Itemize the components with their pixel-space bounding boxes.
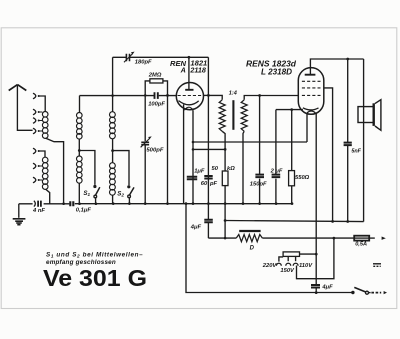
transformer primary winding [219,100,225,132]
terminal arrow mains top [382,237,386,240]
speaker box [358,107,373,123]
wire secondary top to grid V2 [244,96,298,100]
ground [18,204,20,218]
capacitor 60pF [204,176,212,179]
svg-text:150pF: 150pF [250,181,267,187]
wire 2uF branch [275,110,277,204]
switch S2 [130,187,135,195]
wire grid line top: L2 corner to tube1 [80,95,177,97]
svg-text:110V: 110V [299,263,313,269]
cathode arc V1 [179,101,199,105]
svg-text:220V: 220V [262,263,278,269]
wire speaker line [363,59,365,222]
wire 50k to bus [224,149,226,203]
tube V2 RENS1823d outline [298,68,324,115]
inductor antenna coil lower [42,157,48,189]
svg-text:S1 und S2 bei Mittelwellen–: S1 und S2 bei Mittelwellen– [46,251,143,258]
speaker horn [375,100,381,131]
svg-text:60: 60 [201,181,208,187]
speaker diaphragm bar [373,103,375,126]
wire anode branch corner [207,57,209,95]
anode bar V1 [185,89,193,91]
DC mains symbol [373,263,381,265]
capacitor 150pF [255,175,264,178]
wire L3 tap jog to S2 [113,151,129,186]
svg-text:500pF: 500pF [146,148,163,154]
wire tap to coil2 top [38,151,45,157]
wire selector right contact stem [295,256,297,261]
inductor L2 lower [77,156,83,183]
wire 550 branch [291,110,293,204]
svg-text:2MΩ: 2MΩ [148,73,162,79]
wire grid-leak return to bus [167,95,169,203]
wire heater return y221 [225,221,364,222]
switch mains lever [354,287,365,292]
node tap arcs antenna coil lower [33,148,36,183]
wire top line with 180pF [113,56,209,58]
svg-text:4μF: 4μF [321,284,333,290]
capacitor 180pF trimmer [126,54,129,62]
svg-text:2 μF: 2 μF [270,168,283,174]
wire cathode V2 to 2uF/550 [276,109,303,111]
wire D resistor line [208,237,354,239]
wire coil2 bottom to bus [46,189,50,204]
grid dashes V2 [302,81,321,95]
capacitor 4uF right [311,285,320,288]
resistor 50kOhm [222,171,228,186]
capacitor 100pF [155,92,158,99]
wire anode V1 up [188,57,190,90]
wire V1 filament legs [184,104,193,203]
wire selector right to vertical [300,253,317,255]
wire 150pF branch [259,96,261,204]
wire 4uF anode filter branch [207,204,209,239]
svg-text:kΩ: kΩ [227,166,235,172]
svg-text:550Ω: 550Ω [295,175,310,181]
svg-text:180pF: 180pF [135,59,152,65]
wire 500pF branch down to bus [144,95,146,203]
wire after switch dashed [369,292,371,294]
cathode arc V2 [303,108,319,110]
node selector contact arcs [276,263,298,265]
switch pivot circle [366,291,369,294]
resistor D zigzag [236,235,262,242]
wire L2 middle axis [78,139,80,156]
svg-text:1:4: 1:4 [229,90,238,96]
wire selector junction vertical [297,238,334,279]
resistor 2MOhm loop [145,81,167,96]
wire transformer primary top [208,95,222,99]
svg-text:S1: S1 [83,190,90,197]
wire 5nF branch [347,59,349,222]
svg-text:1μF: 1μF [194,168,205,174]
svg-text:A: A [180,65,186,74]
wire jog to 50k [193,148,225,150]
capacitor 5nF [344,143,352,146]
wire anode node down [207,95,209,203]
wire screen grid to right [324,88,333,222]
wire V2 filament left leg [306,113,308,142]
svg-text:50: 50 [212,166,219,172]
wire filament chain [193,141,307,143]
wire V1 grid stub right [204,94,209,96]
wire L3 middle axis [112,139,114,163]
grid dashes V1 [178,95,203,97]
node tap arcs antenna coil upper [33,93,36,134]
capacitor 500pF trimmer [141,142,149,144]
fuse 0,5A [354,236,369,241]
inductor L2 upper [77,113,83,140]
wire selector mid contact stem [287,256,289,261]
resistor 550Ohm [289,171,295,186]
transformer core [232,100,234,130]
wire L2 bottom to bus [78,183,80,203]
wire bus main [19,203,292,205]
svg-text:4μF: 4μF [190,224,202,230]
svg-text:S2: S2 [117,190,124,197]
wire coil1 bottom to bus [46,138,64,203]
wire fuse to terminal [369,237,375,239]
capacitor 4uF left [204,220,213,223]
wire power loop left [186,204,352,293]
svg-text:D: D [250,246,255,252]
svg-text:Ve 301 G: Ve 301 G [43,265,147,291]
wire primary bottom to 50k [222,131,225,149]
wire anode V2 up and top line [310,59,363,75]
capacitor 4nF [34,201,35,207]
voltage selector rect [283,252,299,257]
svg-text:L 2318D: L 2318D [261,67,292,76]
svg-text:2118: 2118 [189,66,205,75]
antenna [9,85,27,91]
inductor antenna coil upper [42,112,48,139]
wire L2 top lead [79,96,81,113]
svg-text:4 nF: 4 nF [32,208,45,214]
inductor L3 upper [110,112,116,139]
wire L2 tap jog to S1 [79,151,95,185]
filament arc V1 [185,107,194,110]
wire L3 bottom to bus [112,195,114,204]
wire secondary bottom to bus [243,131,244,203]
wire x225 to D line [224,204,226,239]
svg-text:0,5A: 0,5A [355,241,367,247]
svg-text:pF: pF [209,181,218,187]
svg-text:0,1μF: 0,1μF [76,208,92,214]
switch S1 [96,187,100,195]
inductor L3 lower [110,163,116,196]
wire L3 top vertical from 180pF line [112,57,114,112]
anode bar V2 [305,74,316,76]
svg-text:100pF: 100pF [148,101,165,107]
wire V2 filament right leg long [315,113,317,293]
wire antenna shaft [17,85,32,130]
transformer secondary winding [241,100,247,132]
core bar above D [239,230,260,232]
wire tap1 to coil top [38,96,45,112]
filament arc V2 [307,111,315,113]
svg-text:5nF: 5nF [351,148,361,154]
svg-text:150V: 150V [280,268,295,274]
tube V1 REN1821 circle [176,83,203,110]
capacitor 1uF [187,177,197,180]
terminal arrow mains bottom [384,291,387,294]
capacitor 2uF [272,175,281,178]
capacitor 0,1uF [70,201,73,206]
wire selector left contact jog [279,257,283,262]
